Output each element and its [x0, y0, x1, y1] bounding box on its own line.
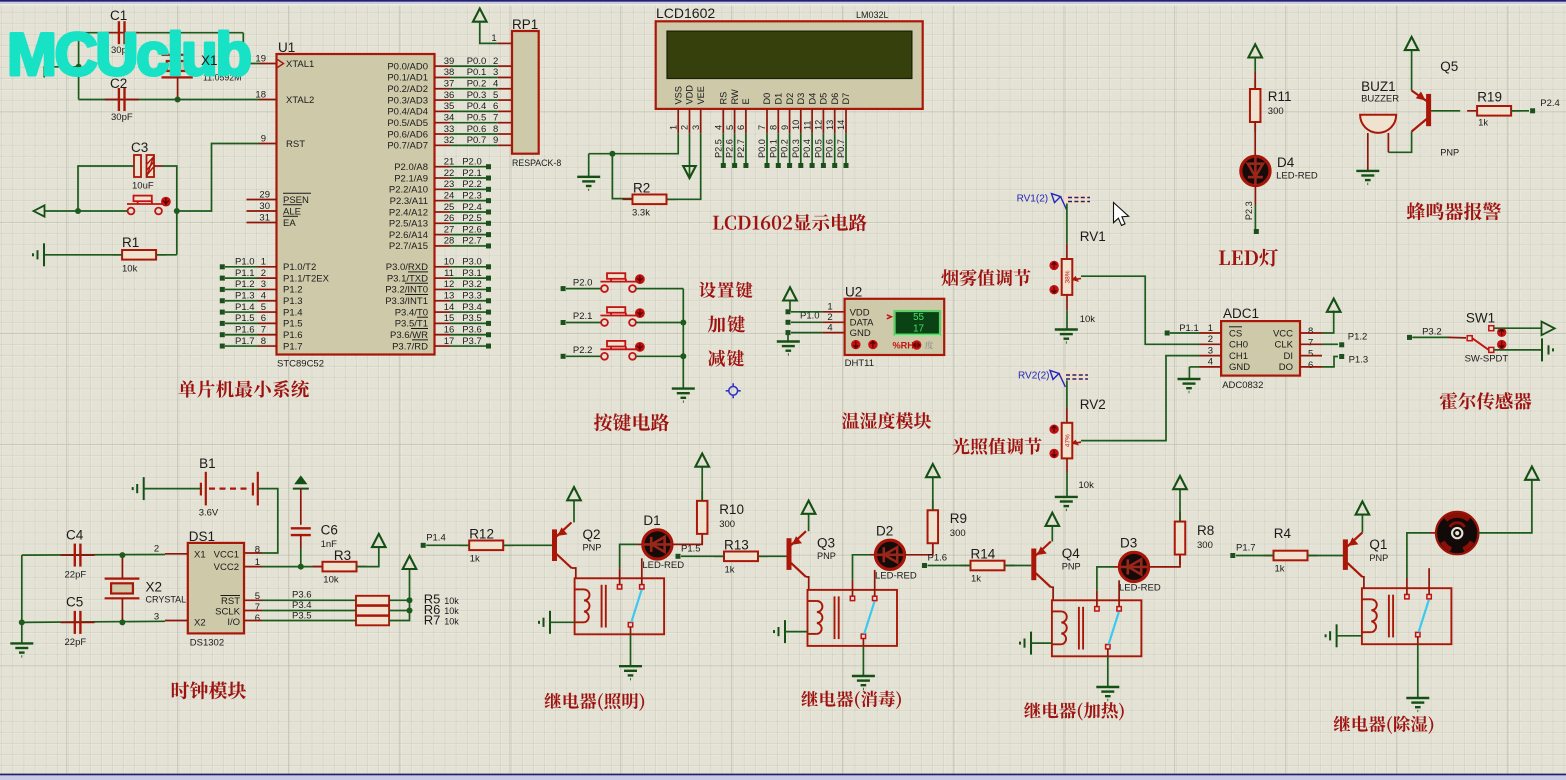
svg-text:P1.2: P1.2: [235, 279, 255, 290]
svg-text:RP1: RP1: [512, 17, 538, 32]
svg-text:47%: 47%: [1065, 434, 1072, 447]
wire relay1 NO up: [620, 544, 638, 568]
svg-text:P0.0: P0.0: [467, 56, 487, 67]
svg-text:D3: D3: [1120, 535, 1137, 550]
rtc DS1 body: [188, 543, 244, 634]
svg-text:P2.2/A10: P2.2/A10: [389, 185, 428, 196]
wire relay1 common stub: [630, 627, 632, 634]
junction: [298, 564, 304, 570]
ground RV2: [1055, 497, 1078, 510]
wire relay2 common stub: [862, 639, 864, 646]
lcd pin names: [668, 85, 851, 133]
svg-text:D1: D1: [643, 513, 660, 528]
power arrow Q5: [1405, 37, 1419, 50]
wire RV2 top stub: [1066, 408, 1068, 423]
svg-text:300: 300: [1268, 106, 1284, 117]
svg-text:P3.0: P3.0: [462, 257, 482, 268]
svg-text:P1.2: P1.2: [1348, 332, 1368, 343]
resistor R3: [313, 566, 367, 568]
power arrow Q4: [1046, 513, 1060, 526]
ground DHT11: [777, 342, 800, 355]
svg-text:VSS: VSS: [673, 86, 683, 104]
wire RV2 bottom stub: [1066, 458, 1068, 472]
wire relay4 NO pin: [1406, 578, 1408, 595]
node P1.5 terminal: [676, 554, 681, 559]
ground sideways SW1: [1542, 338, 1553, 361]
potentiometer RV1: [1062, 259, 1073, 295]
svg-text:P3.5: P3.5: [292, 610, 312, 621]
svg-text:P2.0/A8: P2.0/A8: [394, 162, 428, 173]
svg-text:P0.0/AD0: P0.0/AD0: [387, 61, 428, 72]
switch SW1 SPDT: [1467, 326, 1494, 353]
ground buzzer: [1356, 171, 1379, 184]
wire relay3 NO pin: [1096, 590, 1098, 606]
wire C3 left: [78, 166, 134, 211]
svg-text:1k: 1k: [1275, 564, 1285, 575]
svg-text:3: 3: [493, 67, 498, 78]
wire P1.7 b: [1308, 555, 1344, 557]
wire relay4 common stub: [1417, 637, 1419, 644]
svg-text:PNP: PNP: [1440, 147, 1459, 157]
node vdd terminal: [786, 309, 791, 314]
power arrow Q3: [802, 501, 816, 514]
svg-text:7: 7: [1308, 337, 1313, 348]
node P2.0 terminal: [561, 286, 566, 291]
adc pins: [1200, 323, 1323, 373]
junction: [680, 353, 686, 359]
svg-text:PNP: PNP: [1062, 562, 1081, 572]
svg-text:R8: R8: [1197, 523, 1214, 538]
wire P3.2 to SW1: [1412, 336, 1448, 338]
wire coil gnd relay2: [785, 631, 808, 633]
svg-text:STC89C52: STC89C52: [277, 359, 324, 370]
svg-text:R12: R12: [469, 526, 494, 541]
svg-text:P0.4: P0.4: [467, 101, 487, 112]
svg-text:P0.7: P0.7: [836, 139, 846, 158]
power arrow right SW1: [1542, 322, 1555, 336]
power arrow motor: [1525, 467, 1539, 480]
button increment: [868, 340, 877, 349]
label unit: [925, 341, 933, 349]
wire button bus: [682, 289, 684, 389]
svg-text:300: 300: [719, 519, 735, 530]
svg-text:P0.4: P0.4: [802, 139, 812, 158]
junction: [407, 597, 413, 603]
node P2.2 terminal: [561, 354, 566, 359]
wire X2 top: [121, 555, 123, 579]
switch toggle down: [1497, 340, 1506, 349]
mcu U1 body: [277, 54, 435, 355]
ground clock: [10, 643, 33, 656]
overline RST: [221, 595, 241, 597]
wire relay1 NO pin: [619, 568, 621, 584]
wire C3/R1 vertical: [176, 211, 178, 255]
wire P2.2 to button: [566, 355, 601, 357]
ground sideways battery: [133, 477, 144, 500]
wire arrow to button: [45, 210, 128, 212]
ground sideways R1: [33, 243, 44, 266]
mouse cursor: [1114, 203, 1129, 226]
resistor R5: [356, 596, 389, 605]
svg-text:LM032L: LM032L: [856, 10, 889, 20]
junction: [75, 208, 81, 214]
svg-text:Q5: Q5: [1440, 59, 1458, 74]
wire R2 to VEE: [667, 133, 701, 199]
wire VCC up: [1322, 311, 1334, 334]
svg-text:P1.4: P1.4: [235, 302, 255, 313]
svg-text:10k: 10k: [323, 574, 339, 585]
svg-text:X1: X1: [201, 53, 218, 68]
wire X1 top: [177, 33, 179, 55]
wire C6 to VCC2: [300, 548, 302, 567]
svg-text:13: 13: [825, 120, 835, 130]
svg-text:ALE: ALE: [283, 206, 301, 217]
svg-text:D2: D2: [876, 523, 893, 538]
svg-text:BUZZER: BUZZER: [1361, 94, 1399, 105]
svg-text:P3.3: P3.3: [462, 291, 482, 302]
svg-text:X2: X2: [146, 580, 163, 595]
power arrow R5R6R7: [403, 556, 417, 569]
svg-text:%RH: %RH: [893, 340, 915, 350]
wire relay2 NO pin: [852, 580, 854, 596]
label plus key: [708, 315, 745, 332]
svg-text:P1.3: P1.3: [283, 296, 303, 307]
wire R19 right: [1511, 110, 1529, 112]
svg-text:1k: 1k: [1478, 117, 1488, 128]
wire button P2.0 right: [636, 288, 683, 290]
wire X1 bottom: [177, 77, 179, 99]
section label relay2: [801, 691, 901, 709]
node P1.2 terminal: [1339, 342, 1344, 347]
wire R11 to D4: [1254, 122, 1256, 157]
wire relay4 NO up: [1407, 533, 1430, 578]
mcu U1 P0 pins: [387, 56, 512, 152]
svg-text:LED-RED: LED-RED: [1276, 171, 1318, 182]
svg-text:SW1: SW1: [1466, 311, 1495, 326]
power arrow R11: [1248, 44, 1262, 57]
svg-text:1: 1: [668, 125, 678, 130]
wire stub to logo: [44, 67, 78, 78]
ground relay3: [1096, 687, 1119, 700]
node P2.3 terminal: [1254, 229, 1259, 234]
svg-text:RW: RW: [730, 89, 740, 104]
wire relay3 common stub: [1107, 649, 1109, 656]
svg-text:P0.4/AD4: P0.4/AD4: [387, 107, 428, 118]
wire Q4 emitter up: [1051, 526, 1053, 542]
wire coil gnd relay3: [1031, 642, 1052, 644]
junction: [609, 151, 615, 157]
wire P1.4 b: [503, 544, 552, 546]
svg-text:P0.2/AD2: P0.2/AD2: [387, 84, 428, 95]
svg-text:3.3k: 3.3k: [632, 208, 650, 219]
pin XTAL1 stub: [259, 63, 277, 65]
svg-text:P3.5: P3.5: [462, 313, 482, 324]
svg-text:10k: 10k: [444, 596, 459, 606]
led D1: [643, 530, 672, 559]
svg-text:VCC: VCC: [1273, 328, 1293, 339]
wire RP1 pin1: [480, 22, 498, 44]
svg-text:VCC1: VCC1: [214, 550, 239, 561]
button P2.2: [601, 341, 637, 360]
svg-text:P3.2: P3.2: [462, 279, 482, 290]
svg-text:P0.1: P0.1: [467, 67, 487, 78]
wire battery to VCC1: [258, 489, 278, 553]
wire P1.7 a: [1236, 555, 1274, 557]
svg-text:P1.0: P1.0: [235, 257, 255, 268]
node P1.7 terminal: [1230, 553, 1235, 558]
section label MCU: [179, 380, 309, 398]
wire VCC2 to R3: [262, 566, 323, 568]
crystal X2: [105, 579, 140, 599]
svg-text:R14: R14: [971, 547, 996, 562]
svg-text:VCC2: VCC2: [214, 562, 239, 573]
wire XTAL1 drop: [243, 33, 259, 64]
wire RV2 top: [1066, 380, 1068, 408]
svg-text:DS1: DS1: [189, 529, 215, 544]
wire DHT11 vdd: [791, 311, 823, 313]
mcu U1 left pin names: [247, 53, 315, 229]
led D4: [1241, 156, 1270, 185]
wire relay3 common down: [1107, 656, 1109, 687]
wire SW1 NC right: [1494, 349, 1542, 351]
svg-text:P2.0: P2.0: [462, 157, 482, 168]
svg-text:X1: X1: [194, 550, 206, 561]
wire C3 right stub: [154, 165, 162, 167]
power arrow R10: [695, 454, 709, 467]
svg-text:RV1: RV1: [1080, 229, 1106, 244]
svg-text:P1.4: P1.4: [283, 307, 303, 318]
relay 1: [575, 578, 665, 634]
svg-text:P2.4: P2.4: [462, 202, 482, 213]
wire VSS to R2: [612, 154, 631, 199]
clock marker XTAL1: [278, 60, 284, 68]
power down arrow VDD: [683, 166, 696, 178]
pin XTAL2 stub: [259, 99, 277, 101]
ground sideways relay3: [1020, 632, 1031, 655]
resistor R9: [932, 500, 934, 553]
wire buzzer right leg: [1387, 133, 1389, 152]
svg-text:RV2(2): RV2(2): [1018, 370, 1050, 381]
svg-text:6: 6: [1308, 360, 1313, 371]
ground sideways relay2: [774, 620, 785, 643]
svg-text:RST: RST: [221, 596, 240, 607]
svg-text:P0.2: P0.2: [467, 79, 487, 90]
respack RP1 body: [512, 31, 539, 154]
svg-text:XTAL1: XTAL1: [286, 59, 314, 70]
resistor R6: [356, 606, 389, 615]
svg-text:2: 2: [493, 56, 498, 67]
svg-text:10: 10: [791, 120, 801, 130]
ground sideways relay1: [539, 611, 550, 634]
svg-text:P3.7: P3.7: [462, 336, 482, 347]
svg-text:P2.4/A12: P2.4/A12: [389, 207, 428, 218]
transistor Q5 PNP: [1412, 91, 1429, 132]
wire P1.4 a: [426, 544, 469, 546]
resistor R13: [714, 555, 768, 557]
svg-text:P2.2: P2.2: [462, 179, 482, 190]
wire Q5 emitter up: [1411, 50, 1413, 90]
svg-text:10k: 10k: [444, 606, 459, 616]
svg-text:P0.5: P0.5: [813, 139, 823, 158]
svg-text:D7: D7: [841, 93, 851, 105]
svg-text:17: 17: [913, 324, 924, 335]
wire relay1 common down: [630, 634, 632, 666]
svg-text:DI: DI: [1284, 351, 1294, 362]
sensor display: [895, 311, 940, 335]
svg-text:30pF: 30pF: [111, 112, 133, 123]
mcu U1 P2 pins: [389, 157, 491, 253]
svg-text:P2.7: P2.7: [462, 236, 482, 247]
svg-text:7: 7: [757, 125, 767, 130]
svg-text:P2.3: P2.3: [1244, 201, 1254, 220]
ground ADC: [1178, 379, 1201, 392]
svg-text:R19: R19: [1477, 90, 1502, 105]
svg-text:D0: D0: [762, 93, 772, 105]
power arrow Q2: [567, 487, 581, 500]
wire Q1 emitter up: [1361, 515, 1363, 533]
wire VSS gnd drop: [588, 154, 590, 177]
svg-text:18: 18: [255, 89, 266, 100]
wire X2 pin stub: [165, 620, 188, 622]
resistor R11: [1254, 79, 1256, 132]
pin RST stub: [259, 143, 277, 145]
svg-text:CH0: CH0: [1229, 340, 1248, 351]
resistor R4: [1264, 555, 1318, 557]
svg-text:C3: C3: [131, 140, 148, 155]
adc ADC1 body: [1221, 321, 1300, 376]
svg-text:CH1: CH1: [1229, 351, 1248, 362]
svg-text:PSEN: PSEN: [283, 195, 309, 206]
svg-text:P1.7: P1.7: [235, 336, 255, 347]
svg-text:R9: R9: [950, 511, 967, 526]
svg-text:P2.5: P2.5: [713, 139, 723, 158]
section label clock: [172, 681, 246, 699]
dashes RV1: [1068, 198, 1090, 202]
svg-text:PNP: PNP: [817, 551, 836, 561]
wire relay4 common down: [1417, 644, 1419, 698]
ground relay1: [619, 666, 642, 679]
svg-text:P3.2: P3.2: [1422, 326, 1442, 337]
section label LED: [1219, 249, 1278, 267]
svg-text:RST: RST: [286, 139, 305, 150]
svg-text:P1.7: P1.7: [283, 341, 303, 352]
svg-text:11: 11: [802, 120, 812, 130]
svg-text:P1.6: P1.6: [928, 553, 948, 564]
wire GND pin: [1189, 366, 1199, 368]
section label relay4: [1334, 716, 1434, 734]
wire C5 row: [22, 621, 165, 622]
svg-text:R1: R1: [122, 235, 139, 250]
wire D2 to R9: [905, 543, 933, 555]
motor M1: [1436, 512, 1478, 554]
svg-text:P2.5/A13: P2.5/A13: [389, 219, 428, 230]
ground sideways relay4: [1326, 624, 1337, 647]
svg-text:P2.4: P2.4: [1540, 98, 1560, 109]
svg-text:P0.1/AD1: P0.1/AD1: [387, 73, 428, 84]
svg-text:DS1302: DS1302: [190, 638, 224, 649]
svg-text:XTAL2: XTAL2: [286, 95, 314, 106]
svg-text:SCLK: SCLK: [215, 607, 240, 618]
svg-text:VDD: VDD: [685, 85, 695, 105]
svg-text:4: 4: [493, 79, 498, 90]
wire R9 up: [932, 477, 934, 510]
wire D3 to R8: [1149, 554, 1180, 567]
svg-text:8: 8: [1308, 326, 1313, 337]
wire battery left: [144, 488, 201, 490]
junction: [407, 608, 413, 614]
node P2.1 terminal: [561, 320, 566, 325]
sensor U2 body: [845, 299, 945, 355]
svg-text:55: 55: [913, 312, 924, 323]
svg-text:SW-SPDT: SW-SPDT: [1465, 354, 1509, 365]
svg-text:P1.5: P1.5: [235, 313, 255, 324]
svg-text:R11: R11: [1268, 89, 1292, 104]
marker crosshair: [726, 383, 741, 398]
svg-text:RESPACK-8: RESPACK-8: [512, 158, 561, 168]
svg-text:P0.3: P0.3: [791, 139, 801, 158]
wire R1 right: [156, 254, 177, 256]
svg-text:6: 6: [736, 125, 746, 130]
svg-text:P2.6: P2.6: [462, 224, 482, 235]
lcd data wires: [713, 133, 848, 168]
wire R7 right up: [389, 569, 409, 621]
resistor R1: [112, 254, 166, 256]
svg-text:VEE: VEE: [696, 86, 706, 104]
svg-text:1: 1: [491, 33, 496, 44]
wire D4 to P2.3: [1254, 205, 1256, 230]
svg-text:9: 9: [780, 125, 790, 130]
svg-text:9: 9: [261, 133, 266, 144]
button P2.0: [601, 273, 637, 292]
svg-text:D2: D2: [785, 93, 795, 105]
svg-text:X2: X2: [194, 618, 206, 629]
junction: [119, 552, 125, 558]
wire CLK right: [1322, 343, 1338, 345]
svg-text:B1: B1: [199, 456, 216, 471]
wire relay2 common down: [862, 646, 864, 676]
svg-text:EA: EA: [283, 218, 296, 229]
wire RV1 bottom stub: [1066, 295, 1068, 310]
svg-text:P2.1: P2.1: [462, 168, 482, 179]
svg-text:ADC1: ADC1: [1223, 306, 1259, 321]
potentiometer RV2: [1062, 423, 1073, 459]
wire GND drop: [1188, 367, 1190, 379]
svg-text:ADC0832: ADC0832: [1222, 380, 1263, 391]
svg-text:7: 7: [493, 113, 498, 124]
section label smoke: [941, 269, 1030, 286]
svg-text:P1.0/T2: P1.0/T2: [283, 262, 316, 273]
capacitor C5: [61, 621, 95, 623]
svg-text:P1.1: P1.1: [235, 268, 255, 279]
svg-text:CRYSTAL: CRYSTAL: [146, 595, 187, 605]
svg-text:P3.7/RD: P3.7/RD: [392, 341, 428, 352]
crystal X1: [162, 55, 193, 78]
wire D1 left stub: [637, 543, 642, 545]
wire Q3 collector down: [806, 577, 809, 590]
resistor R2: [623, 198, 677, 200]
svg-text:GND: GND: [1229, 362, 1250, 373]
lcd LCD1602 body: [656, 21, 923, 109]
svg-text:CLK: CLK: [1275, 340, 1294, 351]
svg-text:RV1(2): RV1(2): [1017, 194, 1049, 205]
wire buzzer to Q5: [1388, 132, 1411, 153]
wire DO right: [1322, 357, 1338, 367]
svg-text:C6: C6: [321, 522, 338, 537]
svg-text:C5: C5: [66, 595, 83, 610]
svg-text:RS: RS: [719, 92, 729, 105]
wire R5 right: [389, 599, 409, 601]
net flag RV1(2): [1064, 194, 1090, 205]
